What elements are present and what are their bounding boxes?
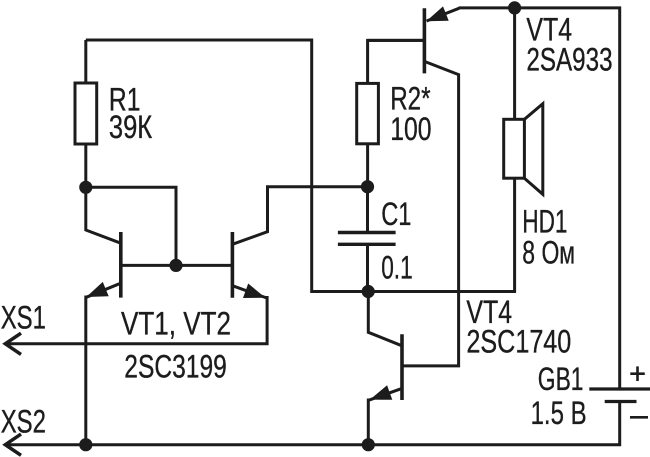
speaker HD1 — [504, 104, 543, 195]
battery minus sign — [630, 416, 648, 419]
battery GB1 — [589, 366, 650, 417]
node: VT1 emitter on XS2 rail — [79, 438, 92, 451]
svg-text:1.5 В: 1.5 В — [531, 395, 587, 431]
svg-text:XS2: XS2 — [1, 403, 46, 439]
transistor VT2 — [5, 232, 267, 344]
wire: speaker top lead from top node — [513, 8, 516, 120]
svg-text:39К: 39К — [109, 109, 153, 145]
wire: VT4 2SA933 collector down to VT 2SC1740 base — [402, 61, 459, 366]
battery plus sign — [630, 366, 645, 381]
resistor R2 — [357, 40, 425, 186]
wire: bottom rail XS2 line full width — [5, 402, 619, 445]
svg-text:8 Ом: 8 Ом — [522, 235, 575, 271]
node: R2 bottom / C1 top junction — [361, 180, 374, 193]
svg-text:2SC3199: 2SC3199 — [124, 349, 227, 385]
svg-text:C1: C1 — [381, 196, 411, 232]
wire: R1 bottom to VT1/VT2 base node — [86, 187, 176, 265]
svg-text:2SC1740: 2SC1740 — [466, 323, 571, 359]
transistor VT1 — [86, 187, 121, 444]
svg-text:VT1, VT2: VT1, VT2 — [121, 306, 231, 342]
node: R1 bottom junction — [79, 181, 92, 194]
wire: top node line from VT4 emitter to right rail, down to battery + — [459, 8, 620, 389]
capacitor C1 — [338, 187, 396, 292]
wire: top-left supply wire from R1 top, down to C1 bottom node, on to speaker bottom — [86, 40, 515, 292]
transistor VT4 2SA933 — [368, 6, 460, 73]
svg-text:XS1: XS1 — [1, 300, 46, 336]
node: C1 bottom junction — [362, 285, 375, 298]
svg-text:GB1: GB1 — [538, 361, 584, 397]
connector XS2 arrow — [5, 434, 21, 455]
resistor R1 — [75, 40, 97, 187]
connector XS1 arrow — [5, 333, 21, 354]
node: VT1/VT2 base junction — [169, 259, 182, 272]
wire: base line joining VT1 and VT2 bases — [121, 264, 233, 267]
svg-text:0.1: 0.1 — [381, 249, 413, 285]
svg-text:100: 100 — [390, 111, 431, 147]
node: top supply node at speaker — [508, 1, 521, 14]
wire: VT2 collector up and right to R2 bottom / C1 top node — [232, 187, 367, 245]
svg-text:2SA933: 2SA933 — [526, 42, 612, 78]
transistor VT4 2SC1740 — [368, 292, 402, 445]
node: 2SC1740 emitter on XS2 rail — [362, 438, 375, 451]
